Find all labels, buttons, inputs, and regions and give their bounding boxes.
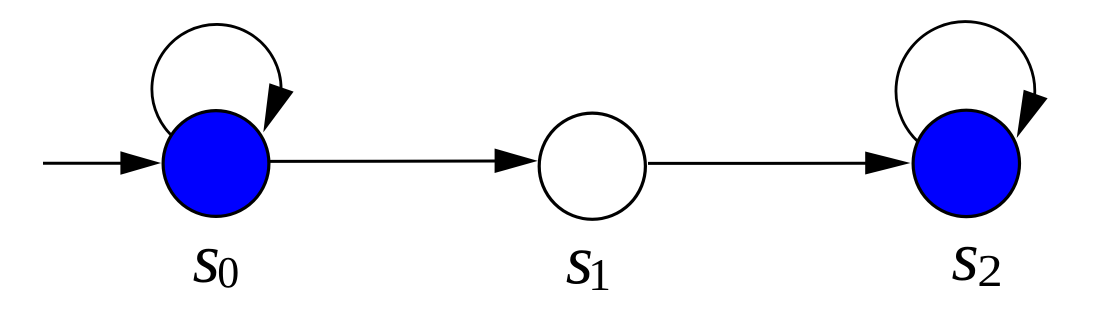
arrowhead of s2 self-loop [1017,90,1048,138]
arrowhead into s2 [865,152,910,175]
state s2 [913,110,1019,216]
wire: start arrow into s0 [43,162,128,165]
state s0 [163,111,269,217]
svg-text:s: s [952,219,979,296]
arrowhead into s1 [495,149,538,174]
state s1 [539,113,645,219]
wire: s1 to s2 [648,162,872,165]
self-loop on s0 [152,24,281,139]
wire: s0 to s1 [268,160,500,163]
arrowhead into s0 [120,151,161,175]
self-loop on s2 [896,22,1035,146]
svg-text:1: 1 [588,249,611,300]
arrowhead of s0 self-loop [263,83,293,132]
svg-text:s: s [193,221,220,298]
svg-text:0: 0 [217,248,239,297]
svg-text:2: 2 [977,246,1002,296]
